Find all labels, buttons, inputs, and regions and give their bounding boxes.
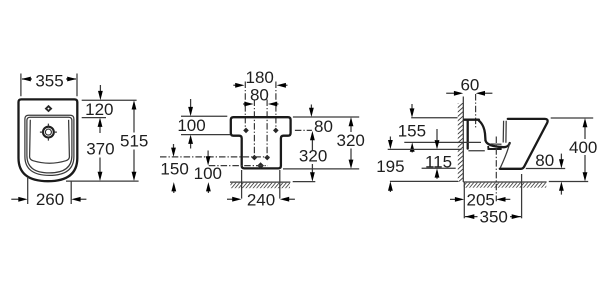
dim 400 down arrow [584,155,586,173]
line D (115 bottom) [422,167,456,169]
dim 240 arrows [227,198,295,200]
dim 515 up arrow [133,109,135,133]
svg-text:80: 80 [250,85,269,104]
dim 120 lower line [82,117,106,119]
bottom extension line [66,180,139,182]
dim 120 top line [82,99,137,101]
line C (195 top) [388,148,462,150]
svg-text:400: 400 [569,138,597,157]
dim 180 arrows [233,84,287,86]
dim 100 inner down arrow [207,151,209,158]
dim 205 arrows [450,198,510,200]
body bottom extension line right [283,168,359,170]
svg-text:100: 100 [194,164,222,183]
lower fixing diamonds [252,155,258,161]
dim 370 up arrow [99,126,101,134]
dim 150 down arrow [173,144,175,149]
svg-text:515: 515 [120,131,148,150]
svg-text:60: 60 [460,76,479,95]
ground line right view [463,181,546,183]
upper fixing diamonds [243,128,249,134]
right top extension line [293,116,359,118]
front body outline [500,119,548,169]
bowl front outer curve [500,143,509,167]
ground line middle [230,181,290,183]
ceramic top bar back [464,119,479,121]
svg-text:350: 350 [480,208,508,227]
ground hatch middle [231,183,291,188]
svg-text:260: 260 [36,190,64,209]
dim 240 ext lines [242,170,280,199]
dim 80 right view line [526,168,565,170]
dim 350 arrows [465,216,521,218]
dim 260 arrows [11,198,86,200]
dim 150 up arrow [173,190,175,193]
svg-text:320: 320 [299,146,327,165]
dim 155 top line [411,117,457,119]
dim 355 ext lines [21,74,77,97]
ground extension mid right [293,181,316,183]
svg-text:155: 155 [398,122,426,141]
fixing hole diamond [45,105,53,112]
left 100 lower line [181,134,230,136]
dashdot line through drain [209,165,268,167]
left 100 top line [181,115,227,117]
right 80 down arrow [310,105,312,109]
drain bump [488,146,501,149]
bowl front wall double line [503,121,506,143]
right 80 up arrow [311,139,313,151]
dim 350 ext line right [521,174,523,218]
hidden shelf line [468,150,484,152]
wall face extension below ground [463,182,465,218]
faucet hole symbol [43,127,54,138]
line B (155 bottom / 115 top) [404,141,481,143]
dim 400 up arrow [584,126,586,139]
drain center dashdot [495,137,497,202]
dashdot line through lower holes [160,156,269,158]
center lines inner pair [254,100,267,158]
bowl inner water line [491,143,502,145]
bowl bottom [486,141,510,148]
ground extension right [549,181,588,183]
dim 400 top line [551,117,594,119]
left 100 arrows [190,99,192,107]
svg-text:320: 320 [337,131,365,150]
dim 355 arrows [22,78,76,80]
dim 370 down arrow [99,158,101,174]
drain diamond [257,162,264,169]
dim 260 ext lines [28,177,71,204]
dim 155 down arrow [411,104,413,109]
dim 80 right view up arrow [560,190,562,195]
svg-text:240: 240 [247,191,275,210]
dim 100 inner up arrow [207,190,209,193]
dim 80 right view down arrow [560,154,562,161]
dim 80 top arrows [243,103,279,105]
svg-text:80: 80 [535,151,554,170]
dim 320 outer up arrow [350,125,352,132]
dim 60 arrows [446,92,492,94]
center lines outer pair [245,82,276,130]
dim 320 outer down arrow [350,149,352,161]
dim 120 down arrow [99,85,101,92]
body outline front view [231,117,291,168]
dim 115 up arrow [436,177,438,179]
svg-text:100: 100 [177,116,205,135]
dim 155 up arrow [411,150,413,152]
bidet outer outline [19,99,78,181]
dim 320 inner down arrow [311,164,313,173]
dashdot through upper holes right [295,129,312,131]
svg-text:180: 180 [246,68,274,87]
svg-text:355: 355 [35,72,63,91]
bowl back slope [479,121,486,141]
dim 515 down arrow [133,150,135,174]
ground hatch right view [464,183,547,188]
svg-text:370: 370 [86,140,114,159]
wall hatch [458,103,464,182]
bowl rim outer line [25,115,74,175]
dim 115 down arrow [436,129,438,140]
bowl cavity outline [30,120,70,163]
dim 195 down arrow [389,137,391,142]
bowl rim inner line [27,117,72,173]
ground extension left of wall [390,180,458,182]
svg-text:150: 150 [160,159,188,178]
svg-text:195: 195 [376,157,404,176]
svg-text:120: 120 [85,100,113,119]
svg-text:80: 80 [314,117,333,136]
bolt center dashdot [475,94,477,128]
wall line [462,97,464,183]
dim 195 up arrow [389,190,391,193]
ceramic back vertical [467,121,469,149]
